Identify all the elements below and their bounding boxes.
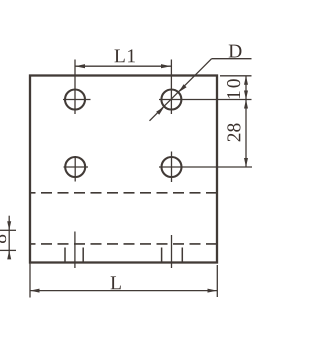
- extension line top right (for dim 10): [220, 75, 252, 77]
- arrow 28 bottom (points down): [244, 158, 248, 167]
- slot right centerline: [171, 235, 173, 268]
- label D: [229, 45, 242, 58]
- arrow L1 right: [161, 64, 171, 68]
- plate outline: [30, 76, 217, 263]
- small left dim top bar: [0, 229, 16, 231]
- centerline horizontal bottom-left hole: [64, 166, 89, 168]
- small left dim arrow bottom (points up): [7, 250, 11, 259]
- slot left centerline: [74, 232, 76, 269]
- centerline horizontal top-left hole: [63, 99, 91, 101]
- dimension L line: [30, 290, 217, 292]
- centerline vertical bottom-left hole: [74, 156, 76, 182]
- arrow on circle upper-right (points down-left): [178, 84, 186, 92]
- dimension L1 line: [75, 65, 171, 67]
- label 8 (rotated, clipped at left edge): [0, 235, 6, 243]
- arrow on circle lower-left (points up-right): [156, 107, 164, 115]
- slot right: side walls: [161, 248, 163, 263]
- arrow L1 left: [75, 64, 85, 68]
- small left dimension vertical line: [8, 216, 10, 259]
- centerline horizontal top-right hole (extends right as dim extension): [159, 99, 252, 101]
- dimension 10 line: [245, 76, 247, 100]
- arrow L left: [30, 289, 40, 293]
- label 10 (rotated): [227, 79, 240, 98]
- arrow 10 top (points up): [244, 76, 248, 85]
- arrow 10 bottom (points down): [244, 91, 248, 100]
- hole top-left: [65, 90, 85, 110]
- small left dim arrow top (points down): [7, 221, 11, 230]
- hidden edge dashed line upper: [30, 192, 217, 194]
- label 28 (rotated): [227, 123, 240, 141]
- centerline vertical top-left hole (extends up as L1 extension): [74, 60, 76, 115]
- dimension 28 line: [245, 100, 247, 168]
- leader D diagonal through hole: [150, 59, 212, 121]
- slot left: side walls: [64, 248, 66, 263]
- centerline horizontal bottom-right hole (extends right as dim extension): [159, 166, 252, 168]
- label L: [111, 276, 121, 289]
- label L1: [114, 49, 134, 62]
- arrow 28 top (points up): [244, 100, 248, 109]
- hole bottom-left: [65, 157, 85, 177]
- extension line bottom-left of L dim: [29, 263, 31, 298]
- hole bottom-right: [162, 157, 182, 177]
- hole top-right: [161, 90, 181, 110]
- extension line bottom-right of L dim: [216, 265, 218, 297]
- centerline vertical top-right hole (extends up as L1 extension): [170, 60, 172, 115]
- leader D horizontal bar: [212, 58, 252, 60]
- arrow L right: [208, 289, 218, 293]
- centerline vertical bottom-right hole: [171, 152, 173, 183]
- hidden edge dashed line lower: [30, 243, 217, 245]
- small left dim bottom bar: [0, 249, 16, 251]
